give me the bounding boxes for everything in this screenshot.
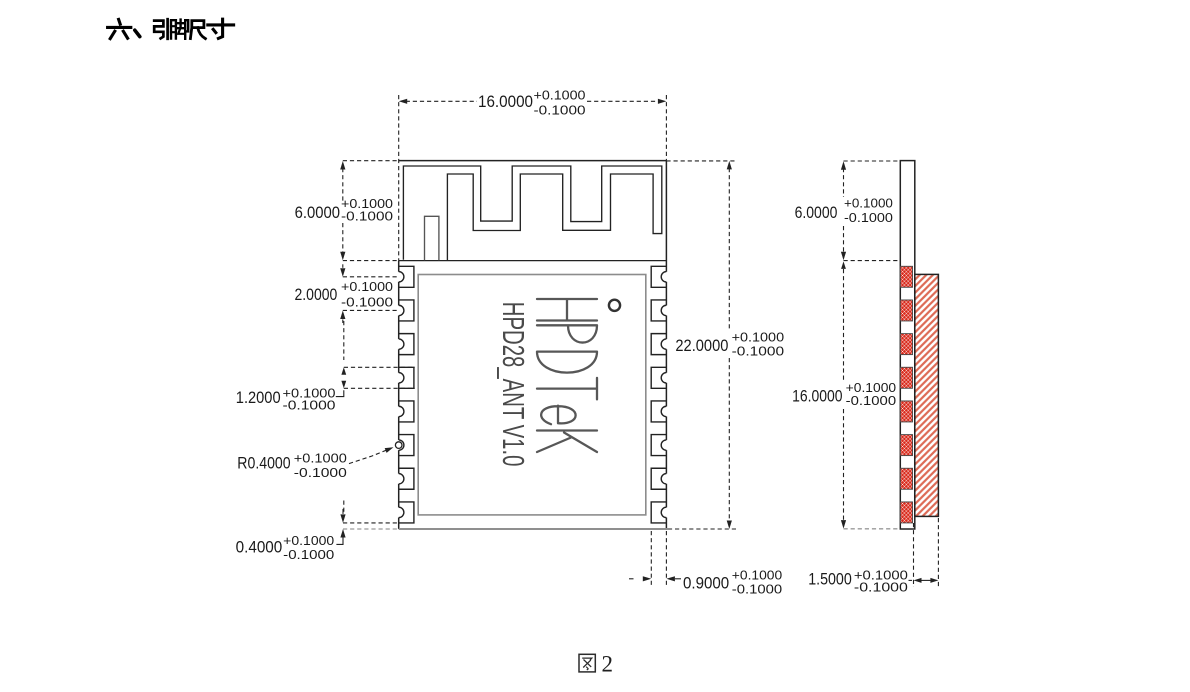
dim 6.0000 side: dimension line and arrows <box>841 161 846 170</box>
dim 6.0000 left: extension lines <box>343 160 399 162</box>
side view pad 5 (red cross-hatched) <box>900 401 912 422</box>
svg-text:+0.1000: +0.1000 <box>732 330 785 345</box>
dim 1.2000 left: arrows inside pointing out <box>341 367 346 375</box>
dim 6.0000 left: dimension line and arrows <box>342 168 344 201</box>
svg-text:0.9000: 0.9000 <box>683 574 729 593</box>
side view pad 6 (red cross-hatched) <box>900 435 912 456</box>
pad R2 (right castellated pad) <box>661 305 671 315</box>
svg-text:-0.1000: -0.1000 <box>294 465 347 480</box>
svg-text:-0.1000: -0.1000 <box>846 393 896 408</box>
side view solder hatch block <box>915 274 939 516</box>
side view pad 1 (red cross-hatched) <box>900 266 912 287</box>
svg-text:0.4000: 0.4000 <box>236 537 283 556</box>
svg-text:2.0000: 2.0000 <box>295 285 338 304</box>
svg-text:2: 2 <box>602 652 614 677</box>
silkscreen text HPDTeK <box>537 299 597 452</box>
dim R0.4000: leader with arrow <box>349 449 391 464</box>
pad R8 (right castellated pad) <box>661 507 671 517</box>
pad L4 (left castellated pad) <box>394 373 404 383</box>
title text 六、引脚尺寸 (hand-drawn strokes) <box>108 19 131 38</box>
dim 0.4000: arrows outside pointing in <box>342 509 344 514</box>
dim 0.4000: extension lines (pad8 bottom, module bottom) <box>343 522 397 524</box>
pad R5 (right castellated pad) <box>661 406 671 416</box>
svg-text:-0.1000: -0.1000 <box>534 102 586 117</box>
svg-text:+0.1000: +0.1000 <box>534 87 586 102</box>
side view pad 7 (red cross-hatched) <box>900 468 912 489</box>
svg-text:16.0000: 16.0000 <box>792 387 842 406</box>
caption 图 2 <box>579 654 595 672</box>
svg-text:+0.1000: +0.1000 <box>294 451 347 466</box>
pin1 marker circle <box>609 300 620 311</box>
pad L7 (left castellated pad) <box>394 474 404 484</box>
dim 1.5000 bottom: arrows inside pointing out <box>914 578 922 583</box>
module outline (front view PCB body) <box>398 160 666 162</box>
pad L6 (left castellated pad) <box>394 440 404 450</box>
pad R1 (right castellated pad) <box>661 272 671 282</box>
dim 16.0000 top: extension lines <box>398 95 400 261</box>
svg-text:6.0000: 6.0000 <box>795 203 838 222</box>
pad L2 (left castellated pad) <box>394 305 404 315</box>
dim 16.0000 side: dimension line and arrows <box>841 261 846 269</box>
svg-text:+0.1000: +0.1000 <box>283 533 334 548</box>
pad R6 (right castellated pad) <box>661 440 671 450</box>
svg-text:+0.1000: +0.1000 <box>732 568 782 583</box>
antenna feed stub <box>425 216 439 260</box>
svg-text:-0.1000: -0.1000 <box>732 582 782 597</box>
dim R0.4000: notch center mark <box>395 442 402 449</box>
dim 2.0000 left: extension lines (pad notch centers) <box>343 276 397 278</box>
svg-text:+0.1000: +0.1000 <box>844 196 893 211</box>
svg-text:-0.1000: -0.1000 <box>341 294 393 309</box>
svg-text:-0.1000: -0.1000 <box>854 580 908 595</box>
svg-text:16.0000: 16.0000 <box>478 92 533 111</box>
dim 22.0000 right: extension lines <box>666 160 736 162</box>
dim 1.2000 left: connector dashes and leader <box>343 321 345 360</box>
antenna meander trace <box>403 166 661 260</box>
svg-text:6.0000: 6.0000 <box>295 203 340 222</box>
inner shield outline <box>418 275 646 515</box>
svg-text:-0.1000: -0.1000 <box>844 210 893 225</box>
side view PCB substrate <box>900 161 915 529</box>
svg-text:HPD28_ANT V1.0: HPD28_ANT V1.0 <box>496 302 529 467</box>
antenna separation line <box>399 260 667 262</box>
side view pad 2 (red cross-hatched) <box>900 300 912 321</box>
pad L1 (left castellated pad) <box>394 272 404 282</box>
dim 0.9000 bottom: arrows outside pointing in <box>629 578 634 580</box>
side view pad 8 (red cross-hatched) <box>900 502 912 523</box>
pad R3 (right castellated pad) <box>661 339 671 349</box>
dim 0.9000 bottom: extension lines (pad edge) <box>650 531 652 585</box>
svg-text:1.2000: 1.2000 <box>236 388 281 407</box>
pad R4 (right castellated pad) <box>661 373 671 383</box>
pad L5 (left castellated pad) <box>394 406 404 416</box>
dim 1.2000 left: extension lines (pad 4 top/bottom) <box>344 366 415 368</box>
svg-text:-0.1000: -0.1000 <box>283 547 334 562</box>
svg-text:R0.4000: R0.4000 <box>237 453 290 472</box>
svg-text:-0.1000: -0.1000 <box>283 398 336 413</box>
side view pad 3 (red cross-hatched) <box>900 334 912 355</box>
pad L3 (left castellated pad) <box>394 339 404 349</box>
dim 6.0000 side: extension lines <box>844 160 901 162</box>
svg-text:+0.1000: +0.1000 <box>341 279 393 294</box>
dim 1.5000 bottom: extension lines <box>913 523 915 587</box>
dim 2.0000 left: arrows outside pointing in <box>342 264 344 268</box>
side view pad 4 (red cross-hatched) <box>900 367 912 388</box>
svg-text:-0.1000: -0.1000 <box>341 209 393 224</box>
svg-text:22.0000: 22.0000 <box>675 336 728 355</box>
svg-text:1.5000: 1.5000 <box>808 570 852 589</box>
pad R7 (right castellated pad) <box>661 474 671 484</box>
dim 16.0000 top: dimension line and arrows <box>406 100 477 102</box>
pad L8 (left castellated pad) <box>394 507 404 517</box>
svg-text:-0.1000: -0.1000 <box>732 344 785 359</box>
dim 22.0000 right: dimension line and arrows <box>727 161 732 170</box>
dim 16.0000 side: bottom extension <box>844 528 901 530</box>
